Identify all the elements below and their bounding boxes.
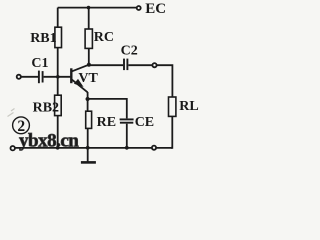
resistor RB1	[55, 27, 62, 47]
svg-text:RL: RL	[179, 99, 198, 114]
wire: RE to bottom rail	[87, 128, 89, 147]
svg-text:C1: C1	[31, 56, 48, 71]
wire: output terminal to RL corner	[157, 65, 173, 97]
transistor VT base bar	[70, 68, 72, 83]
wire: CE to bottom rail	[126, 124, 128, 148]
wire: emitter node to CE	[88, 99, 127, 119]
wire: C2 to output terminal	[128, 64, 152, 66]
svg-text:EC: EC	[145, 1, 166, 17]
transistor VT emitter lead	[72, 80, 88, 93]
wire: bottom rail	[15, 147, 172, 149]
scan smudge	[8, 109, 15, 117]
resistor RC	[85, 29, 92, 48]
terminal input top	[17, 75, 21, 79]
terminal output bottom	[152, 146, 156, 150]
wire: RC to collector node	[88, 48, 90, 64]
wire: RL to bottom rail	[171, 116, 172, 147]
resistor RE	[86, 111, 92, 128]
node: emitter junction	[86, 97, 90, 101]
wire: input to C1	[21, 76, 38, 78]
wire: top supply rail	[58, 7, 137, 9]
node: top rail / RC junction	[87, 6, 91, 10]
circled 2 marker	[13, 117, 30, 134]
transistor VT collector lead	[72, 65, 89, 72]
wire: RB2 to bottom rail	[57, 116, 59, 148]
svg-text:RB1: RB1	[30, 31, 56, 46]
resistor RB2	[55, 95, 62, 115]
wire: C1 to base bar	[44, 76, 71, 78]
svg-text:RC: RC	[94, 30, 114, 45]
terminal input bottom	[11, 146, 15, 150]
wire: emitter down to RE	[87, 92, 89, 111]
node: base junction	[56, 75, 60, 79]
node: RE bottom rail junction / ground node	[86, 146, 90, 150]
wire: collector node to C2	[89, 64, 123, 66]
node: CE bottom rail junction	[125, 146, 129, 150]
terminal output top	[152, 63, 156, 67]
ground	[87, 148, 89, 162]
wire: top rail down to RB1	[57, 8, 59, 28]
transistor VT emitter arrow	[74, 79, 84, 87]
node: RB2 bottom rail junction	[56, 146, 60, 150]
wire: RC from top rail	[88, 8, 90, 29]
wire: RB1 to base node	[57, 48, 59, 77]
capacitor C2	[123, 59, 125, 71]
capacitor C1	[38, 71, 40, 84]
svg-text:RE: RE	[97, 115, 116, 130]
svg-text:C2: C2	[121, 44, 138, 59]
svg-text:CE: CE	[135, 115, 154, 130]
resistor RL	[169, 97, 176, 116]
node: collector junction	[87, 63, 91, 67]
wire: base node down to RB2	[57, 77, 59, 95]
capacitor CE	[120, 118, 134, 120]
svg-text:VT: VT	[78, 71, 98, 86]
terminal EC	[137, 6, 141, 10]
svg-text:RB2: RB2	[33, 101, 59, 116]
svg-text:2: 2	[17, 118, 25, 135]
